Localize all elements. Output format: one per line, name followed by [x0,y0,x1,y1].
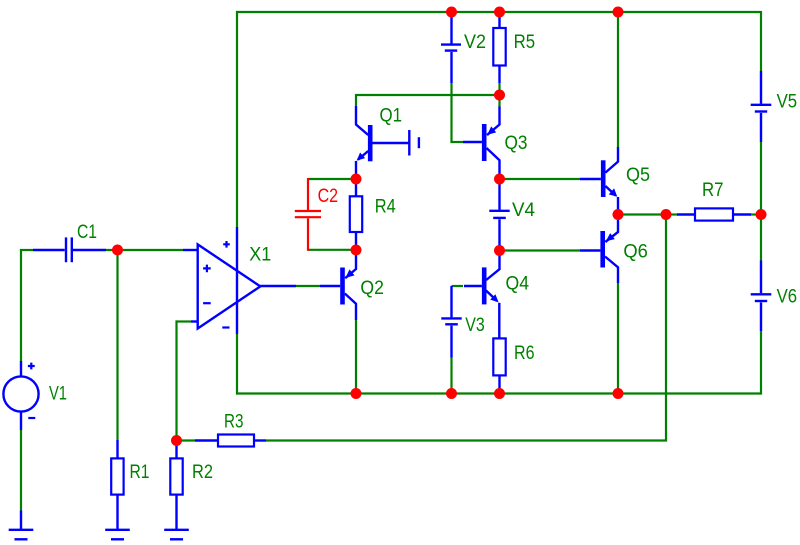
wire V3 bottom to ground rail [450,358,452,394]
wire V4 node to Q6 base [500,249,581,251]
wire C1 node down to R1 [116,250,118,440]
transistor Q6 [580,215,618,283]
wire C1 right to non-inverting input [106,249,183,251]
svg-text:Q6: Q6 [623,241,648,263]
svg-text:C1: C1 [77,221,97,243]
capacitor C1 [33,237,106,262]
wire R7 node down to V6 [760,215,762,261]
wire Q1 collector corner down [355,94,357,106]
junction top rail at Q5 [613,7,624,18]
wire op-amp output green segment [296,285,320,287]
wire Q5 collector from top rail [617,12,619,147]
svg-text:R1: R1 [130,461,150,483]
svg-text:Q1: Q1 [380,105,403,127]
wire V2 to Q3 base [450,141,463,143]
wire R3 row horizontal [266,439,667,441]
svg-text:R6: R6 [514,342,535,364]
svg-text:V1: V1 [49,383,67,405]
junction R7 right node [756,209,767,220]
wire inverting input vertical [175,320,177,440]
resistor R7 [677,208,751,220]
wire op-amp V- down to ground rail [236,334,238,395]
wire V1 top vertical [20,249,22,361]
wire output node to R7 left [666,213,677,215]
wire R7 right to V5/V6 node [751,213,761,215]
junction R4 top node [351,174,362,185]
wire V3 corner to Q4 base [452,285,464,287]
wire Q6 collector to ground rail [617,283,619,394]
svg-text:R5: R5 [514,31,536,53]
transistor Q4 [464,251,500,339]
svg-text:R2: R2 [192,461,213,483]
resistor R4 [350,179,362,250]
transistor Q5 [580,147,618,215]
wire R6 bottom green [498,389,500,394]
wire V1 top lead horizontal [20,249,33,251]
junction C1/R1 node [112,245,123,256]
transistor Q2 [320,250,356,320]
junction ground rail at Q6 [613,388,624,399]
capacitor C2 (selected, red) [295,178,321,251]
svg-text:Q5: Q5 [626,164,650,186]
wire Q5/Q6 node to feedback node [618,213,666,215]
svg-text:Q3: Q3 [505,132,528,154]
svg-text:X1: X1 [249,243,271,265]
junction R4 bottom node [351,245,362,256]
svg-text:R3: R3 [224,411,244,433]
resistor R1 [111,440,123,529]
svg-text:Q2: Q2 [360,277,384,299]
svg-text:C2: C2 [318,185,339,207]
transistor Q3 [463,107,500,176]
resistor R5 [493,12,505,83]
junction ground rail at Q2 [351,388,362,399]
svg-text:V4: V4 [512,199,535,221]
wire C2 bottom connection [308,249,356,251]
wire left vertical from top rail to op-amp V+ [236,11,238,227]
svg-text:V6: V6 [777,286,798,308]
resistor R3 [195,435,266,447]
wire V1 bottom to ground [20,430,22,511]
voltage source V1 [3,361,38,430]
junction R5 bottom node [494,90,505,101]
wire R5 bottom green [498,83,500,95]
battery V4 [489,179,509,251]
transistor Q1 [356,106,419,175]
wire C2 top connection [308,178,356,180]
junction ground rail at V3 [446,388,457,399]
battery V5 [751,71,772,142]
wire Q3 emitter green stub [498,95,500,107]
svg-text:R4: R4 [375,196,396,218]
svg-text:V5: V5 [777,91,798,113]
ground (R1) [105,530,130,540]
svg-text:V3: V3 [465,314,485,336]
op-amp X1 [183,227,296,334]
wire R3 left to inverting node [177,439,196,441]
wire bottom ground rail [236,392,761,394]
wire V6 bottom to ground rail [760,331,762,394]
wire Q1 collector row to R5 node [356,94,500,96]
wire inverting input horizontal [177,320,192,322]
resistor R2 [170,441,182,530]
wire Q2 collector to ground rail [355,320,357,394]
ground (V1) [9,511,34,540]
junction output feedback node [661,209,672,220]
resistor R6 [493,338,505,390]
wire feedback vertical from output node down to R3 row [665,215,667,441]
battery V2 [441,12,461,83]
battery V6 [751,261,772,332]
svg-text:V2: V2 [464,31,486,53]
junction Q5 emitter node [613,209,624,220]
wire Q3 node to Q5 base [500,178,581,180]
wire V5 bottom to R7 node [760,142,762,215]
wire V2 bottom vertical [450,83,452,142]
junction V4 bottom node [494,245,505,256]
ground (R2) [164,530,189,540]
wire top supply rail [236,11,761,13]
junction R2/R3 node [171,435,182,446]
battery V3 [441,286,461,358]
junction top rail at V2 [446,7,457,18]
junction ground rail at R6 [494,388,505,399]
svg-text:Q4: Q4 [506,273,530,295]
wire right vertical top (rail to V5) [760,11,762,71]
junction top rail at R5 [494,7,505,18]
junction Q3 collector node [494,174,505,185]
svg-text:R7: R7 [702,179,724,201]
